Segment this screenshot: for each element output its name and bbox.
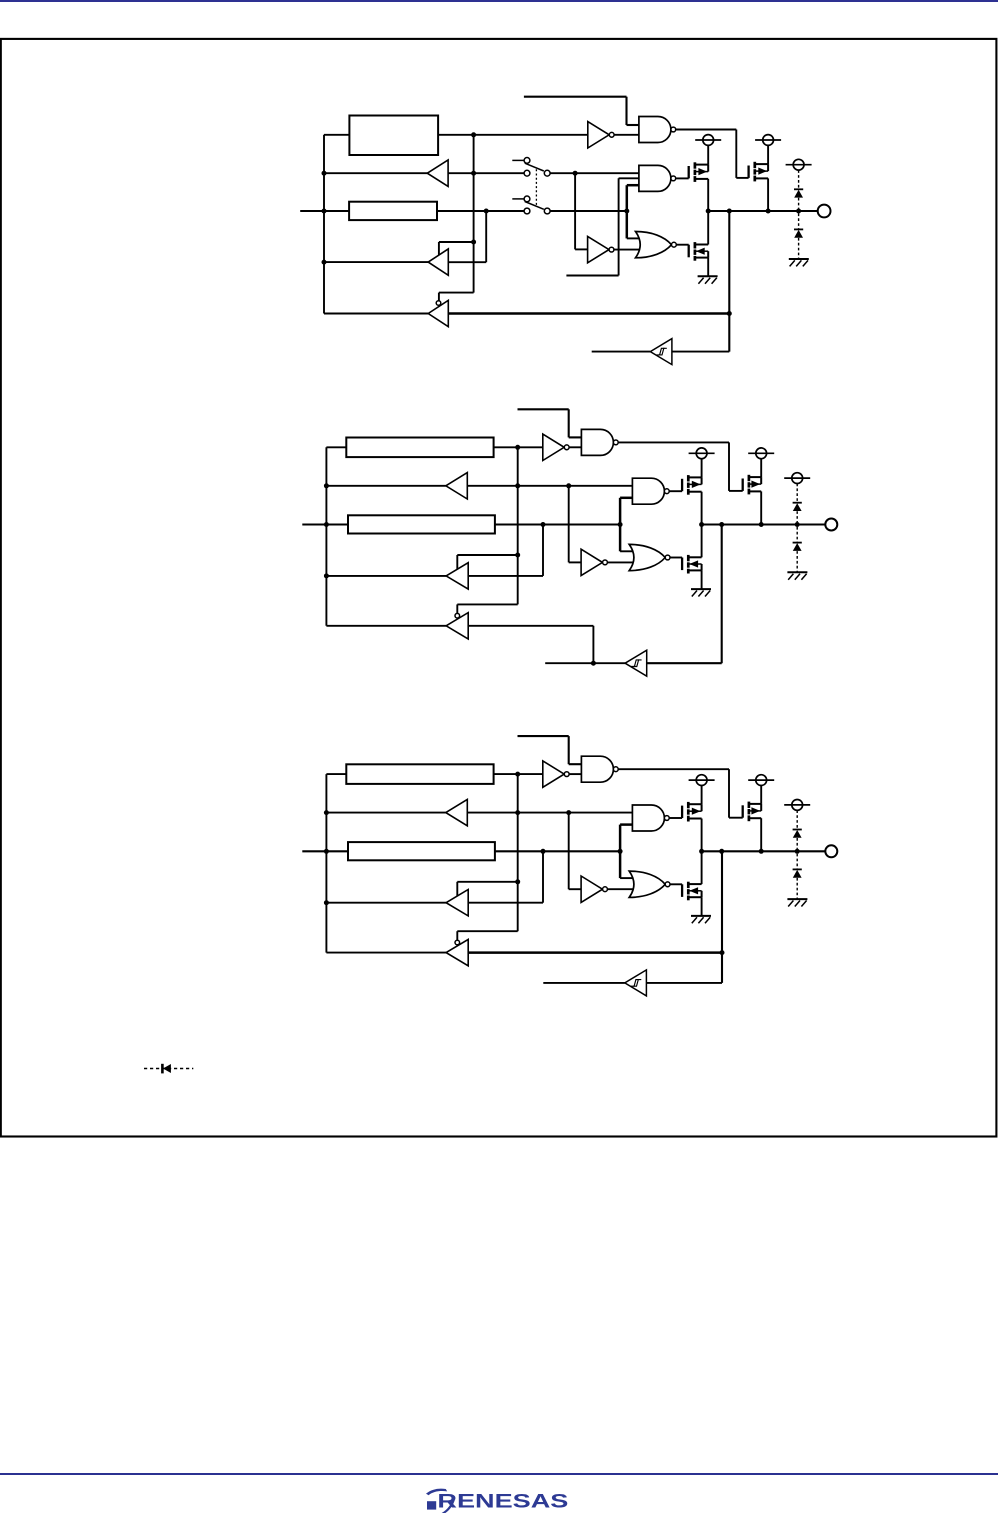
inverter U5 [581, 876, 602, 902]
node box output junction [515, 445, 520, 450]
node box B1 output junction [471, 132, 476, 137]
buffer read data [446, 799, 468, 825]
protection diode D1 dashed link to VCC [796, 484, 798, 503]
pin output line [702, 850, 825, 852]
wire data tap down to NOR input 1 [620, 550, 633, 552]
bubble U4 enable [436, 301, 441, 306]
node pull-up drain junction [759, 522, 764, 527]
I/O pin [825, 845, 837, 857]
wire NOR U7 output to NMOS Q2 gate [676, 244, 689, 246]
wire buffer U4 output to bus [324, 313, 428, 315]
VCC symbol above Q3 [756, 448, 767, 459]
wire box B21 output to inverter [494, 446, 543, 448]
register box B32 [348, 842, 495, 860]
wire buffer output to bus [326, 485, 445, 487]
node bus-U3 junction [322, 260, 327, 265]
register box B31 [346, 764, 493, 784]
schmitt trigger input buffer [625, 650, 647, 676]
wire output node to Q2 drain [701, 851, 703, 884]
wire switch SWA stub [512, 159, 524, 161]
wire switch SWB stub [512, 198, 524, 200]
wire switch SWA blade [525, 163, 544, 171]
wire VCC to Q1 source [707, 145, 709, 164]
wire switch SWB to data tap [550, 210, 627, 212]
wire read tap down to buffer U3 [542, 851, 544, 902]
wire left bus vertical [325, 447, 327, 626]
pin output line [702, 523, 825, 525]
protection diode D1 [793, 502, 802, 504]
wire inverter U5 to NOR input 2 [607, 561, 633, 563]
node Q1-Q2 drain junction [699, 522, 704, 527]
wire switch gang dashed link [535, 169, 537, 206]
wire into NAND U1 input 1 [569, 763, 582, 765]
wire main input stub [302, 523, 348, 525]
node central bus U3-enable junction [515, 879, 520, 884]
wire NOR output to NMOS Q2 gate [670, 883, 682, 885]
wire VCC to Q1 source [701, 786, 703, 805]
wire bus to register box B21 [326, 446, 346, 448]
wire feedback vertical to schmitt [721, 525, 723, 664]
wire inverter U6 to NAND U1 input 2 [569, 773, 581, 775]
protection diode D2 [793, 868, 802, 870]
wire inverter U6 to NAND U1 input 2 [614, 134, 639, 136]
NOR gate NMOS driver [629, 871, 665, 897]
wire read tap down to buffer U3 [542, 525, 544, 576]
inverter U5 [581, 549, 602, 575]
VCC symbol above Q1 [696, 448, 707, 459]
node feedback tap [719, 522, 724, 527]
node schmitt output tap [591, 661, 596, 666]
wire tap down to inverter U5 [568, 813, 570, 890]
wire NOR output to NMOS Q2 gate [670, 557, 682, 559]
VCC symbol above protection diode D1 [792, 800, 803, 811]
inverter U6 [543, 434, 564, 460]
ground below D2 [787, 898, 807, 900]
wire buffer U4 input [468, 625, 593, 627]
wire central enable bus vertical [473, 135, 475, 293]
svg-text:RENESAS: RENESAS [437, 1490, 568, 1512]
wire inverter U5 to NOR input 2 [614, 249, 639, 251]
node box output junction [515, 772, 520, 777]
register box B1 [349, 116, 438, 156]
dashed link D1 to pin node [798, 198, 800, 209]
ground below D2 [789, 258, 809, 260]
bubble U4 enable [455, 613, 460, 618]
wire Q3 drain to output node [760, 491, 762, 524]
node feedback tap [727, 209, 732, 214]
wire data tap up to NAND U2 input 3 [626, 185, 629, 238]
wire data tap down to NOR input 1 [620, 877, 633, 879]
dashed link D2 to ground [796, 551, 798, 572]
figure border frame [1, 39, 997, 1137]
Renesas logo [426, 1489, 568, 1513]
buffer U3 read pin [446, 890, 468, 916]
wire buffer U4 output to bus [326, 625, 446, 627]
wire feedback vertical [721, 851, 723, 983]
node read tap junction [541, 522, 546, 527]
node bus main-line junction [322, 209, 327, 214]
wire schmitt output [543, 982, 625, 984]
protection diode D1 [793, 829, 802, 831]
wire buffer U4 enable from central bus [457, 930, 517, 932]
buffer U3 read pin [446, 563, 468, 589]
node data tap junction [624, 209, 629, 214]
VCC symbol above Q1 [696, 775, 707, 786]
wire NAND U2 output to PMOS Q1 gate [669, 817, 682, 819]
wire Q2 source to ground [701, 897, 703, 916]
wire main input stub [300, 210, 349, 212]
inverter U6 [543, 761, 564, 787]
wire Q3 drain to output node [767, 178, 769, 211]
VCC symbol above Q3 [763, 135, 774, 146]
I/O pin [825, 519, 837, 531]
wire buffer U3 output to bus [326, 902, 446, 904]
switch SWB mode select [524, 196, 530, 202]
ground below Q2 [691, 588, 711, 590]
VCC symbol above protection diode D1 [792, 473, 803, 484]
wire central enable bus vertical [517, 447, 519, 604]
node pull-up drain junction [759, 849, 764, 854]
wire B2-output drop to buffer U3 input [485, 211, 487, 262]
wire buffer U3 enable from central bus [439, 241, 474, 243]
wire feedback to schmitt trigger U8 [672, 351, 729, 353]
I/O pin P1 [818, 205, 831, 218]
node bus-U1 junction [322, 171, 327, 176]
node feedback to U4 junction [727, 311, 732, 316]
NOR gate U7 NMOS driver [636, 232, 672, 258]
node bus junction [324, 483, 329, 488]
wire bus to register box B1 [324, 134, 349, 136]
protection diode D2 [793, 542, 802, 544]
node central bus junction [515, 483, 520, 488]
node protection diode junction [796, 209, 801, 214]
node feedback tap [719, 849, 724, 854]
wire top mode input line [524, 96, 627, 98]
inverter U5 [588, 236, 609, 262]
protection diode D1 [794, 188, 803, 190]
node bus-U3 junction [324, 900, 329, 905]
PMOS Q3 pull-up MOS [747, 166, 749, 178]
wire tap down to inverter U5 [568, 486, 570, 563]
node central bus U3-enable junction [471, 240, 476, 245]
dashed link pin node to D2 [798, 213, 800, 229]
buffer U3 read buffer [428, 249, 448, 275]
PMOS Q3 pull-up MOS [742, 479, 744, 491]
bubble U4 enable [455, 940, 460, 945]
dashed link pin node to D2 [796, 854, 798, 870]
node data tap junction [618, 849, 623, 854]
wire buffer U3 enable from central bus [457, 554, 517, 556]
wire buffer U1 input line to switch SWA [448, 172, 524, 174]
wire central enable bus vertical [517, 774, 519, 931]
wire NAND U2 output to PMOS Q1 gate [669, 490, 682, 492]
ground below D2 [787, 571, 807, 573]
buffer U1 read buffer [427, 160, 448, 186]
wire box B2 output to data tap [495, 850, 620, 852]
node central bus U3-enable junction [515, 553, 520, 558]
NAND gate U1 pull-up control [581, 429, 613, 455]
protection diode D1 dashed link to VCC [798, 170, 800, 189]
ground below Q2 [698, 275, 718, 277]
NAND gate U1 pull-up control [581, 756, 613, 782]
NMOS Q2 output driver [681, 884, 683, 897]
wire bus to register box B31 [326, 773, 346, 775]
node box B2 output junction [484, 209, 489, 214]
node data tap junction [618, 522, 623, 527]
wire Q1 drain to output node [707, 179, 709, 211]
dashed link pin node to D2 [796, 527, 798, 543]
wire box B31 output to inverter [494, 773, 543, 775]
register box B21 [346, 438, 493, 458]
node central bus U1 junction [471, 171, 476, 176]
wire feedback vertical [728, 211, 730, 352]
dashed link D2 to ground [796, 878, 798, 899]
PMOS Q1 output driver [681, 479, 683, 491]
wire VCC to Q1 source [701, 459, 703, 478]
wire VCC to Q3 source [760, 786, 762, 804]
wire box B2 output to data tap [495, 523, 620, 525]
wire Q2 source to ground [701, 570, 703, 589]
wire box B1 output to inverter U6 [438, 134, 588, 136]
node protection diode junction [795, 522, 800, 527]
wire inverter U6 to NAND U1 input 2 [569, 446, 581, 448]
wire buffer U4 input from pin feedback [468, 951, 722, 954]
protection diode D1 dashed link to VCC [796, 810, 798, 829]
node tap to inverter U5 [573, 171, 578, 176]
wire buffer U4 enable from central bus [457, 603, 517, 605]
wire Q1 drain to output node [701, 492, 703, 525]
VCC symbol above protection diode D1 [793, 159, 804, 170]
wire NAND U1 output to pull-up PMOS Q3 gate [676, 129, 737, 131]
wire VCC to Q3 source [767, 145, 769, 164]
wire buffer U1 output to bus [324, 172, 427, 174]
wire NAND U2 output to PMOS Q1 gate [676, 177, 689, 179]
top blue header bar [0, 0, 998, 2]
NAND gate U1 pull-up control [639, 117, 671, 143]
node tap to inverter [566, 810, 571, 815]
wire switch SWA to NAND U2 input 1 [550, 172, 639, 174]
PMOS Q1 output driver [688, 166, 690, 178]
dashed link D2 to ground [798, 238, 800, 259]
wire schmitt U8 output [592, 351, 651, 353]
node bus main-line junction [324, 522, 329, 527]
register box B2 [349, 202, 437, 220]
node Q1-Q2 drain junction [706, 209, 711, 214]
wire buffer U3 enable from central bus [457, 881, 517, 883]
wire VCC to Q3 source [760, 459, 762, 477]
wire schmitt output [545, 662, 625, 664]
NMOS Q2 output driver [688, 245, 690, 258]
wire data tap up to NAND U2 input 2 [619, 825, 622, 879]
wire into NAND U1 input 1 [627, 124, 639, 126]
dashed link D1 to pin node [796, 838, 798, 849]
wire Q2 source to ground [707, 258, 709, 277]
legend: protection diode symbol [144, 1068, 193, 1070]
node pull-up drain junction [766, 209, 771, 214]
buffer U4 with inverted enable [446, 613, 468, 639]
pin output line [708, 210, 817, 212]
buffer read data [446, 473, 468, 499]
wire data tap down to NOR U3B input 1 [627, 237, 640, 239]
NAND gate U2 PMOS driver [632, 805, 664, 831]
node protection diode junction [795, 849, 800, 854]
PMOS Q1 output driver [681, 806, 683, 818]
NMOS Q2 output driver [681, 558, 683, 571]
footer rule [0, 1473, 998, 1475]
wire NAND U1 output to pull-up PMOS gate [618, 768, 729, 770]
node tap to inverter [566, 483, 571, 488]
wire NAND U1 output to pull-up PMOS gate [618, 441, 729, 443]
wire top mode input line [518, 408, 569, 410]
wire data tap up to NAND U2 input 2 [619, 498, 622, 552]
ground below Q2 [691, 915, 711, 917]
schmitt trigger U8 [650, 339, 672, 365]
protection diode D2 [794, 228, 803, 230]
wire left bus vertical [323, 135, 325, 314]
wire buffer U4 input from pin feedback [448, 312, 729, 315]
wire Q3 drain to output node [760, 818, 762, 851]
buffer U4 with inverted enable [446, 939, 468, 965]
wire output node to Q2 drain [707, 211, 709, 245]
wire buffer input line to NAND input 1 [467, 812, 632, 814]
wire buffer input line to NAND input 1 [467, 485, 632, 487]
wire box B2 output to switch SWB [437, 210, 524, 212]
node bus junction [324, 810, 329, 815]
wire Q1 drain to output node [701, 819, 703, 852]
node Q1-Q2 drain junction [699, 849, 704, 854]
wire left bus vertical [325, 774, 327, 953]
switch SWA mode select [524, 158, 530, 164]
wire buffer U3 output to bus [324, 261, 428, 263]
wire main input stub [302, 850, 348, 852]
VCC symbol above Q1 [703, 135, 714, 146]
wire output node to Q2 drain [701, 525, 703, 558]
wire output-enable line to NAND U2 input 2 [619, 177, 639, 179]
wire schmitt output up to buffer U4 input [592, 626, 594, 663]
NAND gate U2 PMOS driver [639, 165, 671, 191]
wire buffer output to bus [326, 812, 445, 814]
VCC symbol above Q3 [756, 775, 767, 786]
node feedback to U4 junction [720, 950, 725, 955]
wire buffer U3 output to bus [326, 575, 446, 577]
inverter U6 [588, 122, 609, 148]
wire into NAND U1 input 1 [569, 436, 582, 438]
node bus-U3 junction [324, 573, 329, 578]
wire top mode input line [518, 735, 569, 737]
schmitt trigger input buffer [625, 970, 647, 996]
buffer U4 read buffer with inverted enable [428, 300, 448, 326]
NOR gate NMOS driver [629, 544, 665, 570]
wire buffer U4 output to bus [326, 952, 446, 954]
register box B22 [348, 515, 495, 533]
dashed link D1 to pin node [796, 511, 798, 522]
wire buffer U4 enable from central bus [439, 292, 474, 294]
wire tap down to inverter U5 [574, 173, 576, 249]
PMOS Q3 pull-up MOS [742, 805, 744, 817]
node central bus junction [515, 810, 520, 815]
node read tap junction [541, 849, 546, 854]
wire inverter U5 to NOR input 2 [607, 888, 633, 890]
NAND gate U2 PMOS driver [632, 478, 664, 504]
wire switch SWB blade [525, 202, 544, 210]
wire feedback to schmitt trigger [646, 982, 722, 984]
node bus main-line junction [324, 849, 329, 854]
